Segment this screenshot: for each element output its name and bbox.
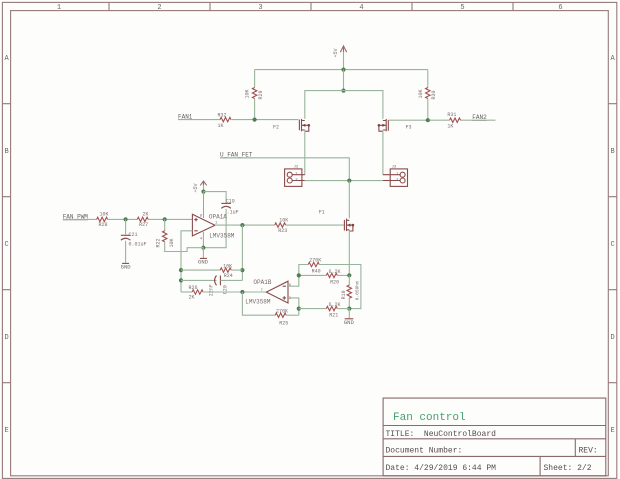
- svg-text:R24: R24: [224, 273, 233, 279]
- svg-text:R28: R28: [99, 222, 108, 228]
- svg-text:5: 5: [460, 4, 464, 12]
- svg-text:F1: F1: [319, 210, 325, 216]
- wire sense to GND: [348, 309, 350, 319]
- junction R24 right: [240, 268, 244, 272]
- svg-text:2K: 2K: [143, 212, 149, 218]
- svg-text:10K: 10K: [245, 89, 251, 98]
- resistor R24: [181, 264, 242, 280]
- junction R24 left: [179, 268, 183, 272]
- svg-text:GND: GND: [344, 319, 355, 326]
- svg-text:R29: R29: [258, 90, 264, 99]
- svg-text:TITLE: NeuControlBoard: TITLE: NeuControlBoard: [386, 430, 497, 439]
- svg-text:6.2K: 6.2K: [329, 302, 341, 308]
- op-amp V+ pin: [203, 192, 205, 218]
- wire F1 drain up: [348, 181, 350, 219]
- wire +5V to C19: [204, 192, 227, 204]
- frame row ticks left: [2, 104, 10, 383]
- wire +5V stem: [343, 52, 345, 69]
- wire FAN1: [178, 119, 220, 121]
- junction top rail: [341, 68, 345, 72]
- wire J2-J3 row: [305, 180, 383, 182]
- junction R29/FAN1: [253, 118, 257, 122]
- svg-text:R25: R25: [279, 321, 288, 327]
- wire R23 to F1 gate: [286, 224, 344, 226]
- svg-text:C20: C20: [223, 285, 229, 294]
- svg-text:4: 4: [359, 4, 363, 12]
- wire R20 to sense node: [337, 274, 349, 276]
- svg-text:R31: R31: [447, 112, 456, 118]
- svg-text:0.05Ohm: 0.05Ohm: [355, 281, 361, 300]
- svg-text:6: 6: [558, 4, 562, 12]
- wire U_FAN_FET: [221, 158, 350, 181]
- wire R40 to right leg: [319, 265, 361, 309]
- svg-text:3: 3: [258, 4, 262, 12]
- capacitor C20: [181, 276, 242, 297]
- wire R26 row: [181, 291, 192, 293]
- svg-text:Sheet: 2/2: Sheet: 2/2: [544, 464, 592, 473]
- svg-text:1K: 1K: [218, 123, 224, 129]
- resistor R31: [447, 112, 460, 130]
- svg-text:D: D: [610, 334, 614, 342]
- svg-text:R21: R21: [329, 313, 338, 319]
- wire -input to feedback bus: [181, 231, 192, 292]
- svg-text:R32: R32: [218, 112, 227, 118]
- svg-text:LMV358M: LMV358M: [209, 232, 235, 239]
- svg-text:E: E: [610, 427, 614, 435]
- wire top rail: [255, 69, 428, 71]
- resistor R32: [218, 112, 232, 129]
- junction R30/FAN2: [426, 118, 430, 122]
- wire FAN_PWM: [63, 218, 97, 220]
- junction R20 left: [297, 273, 301, 277]
- svg-text:270K: 270K: [309, 258, 321, 264]
- resistor R25: [275, 309, 288, 327]
- junction J row: [347, 179, 351, 183]
- resistor R19: [341, 275, 360, 308]
- svg-text:R27: R27: [139, 222, 148, 228]
- junction R22 tap: [163, 217, 167, 221]
- svg-text:GND: GND: [121, 263, 132, 270]
- svg-text:1: 1: [57, 4, 61, 12]
- wire R25 loop: [242, 292, 275, 315]
- svg-text:+5V: +5V: [333, 48, 339, 57]
- svg-text:10K: 10K: [100, 212, 109, 218]
- svg-text:+5V: +5V: [193, 183, 199, 192]
- svg-text:C19: C19: [226, 198, 235, 204]
- frame row ticks right: [608, 104, 617, 383]
- resistor R28: [97, 212, 109, 228]
- svg-text:LMV358M: LMV358M: [245, 298, 271, 305]
- wire R26 to OPA1B output: [203, 291, 266, 293]
- resistor R27: [137, 212, 148, 228]
- svg-text:Document Number:: Document Number:: [386, 446, 463, 455]
- wire V- to GND: [202, 248, 204, 258]
- wire R20 row: [299, 274, 327, 276]
- wire FAN2 right: [461, 119, 496, 121]
- frame row letters left: [4, 55, 9, 435]
- junction +5V node: [201, 190, 205, 194]
- ground GND (C21): [121, 263, 132, 270]
- svg-text:10K: 10K: [279, 218, 288, 224]
- ground GND (op-amp): [198, 258, 209, 265]
- resistor R26: [189, 285, 204, 301]
- svg-text:R19: R19: [341, 290, 347, 299]
- frame column numbers top: [57, 4, 563, 12]
- wire +5V to opamp V+: [203, 185, 205, 191]
- svg-text:R30: R30: [431, 90, 437, 99]
- resistor R21: [326, 302, 340, 319]
- connector J2: [285, 165, 305, 186]
- connector J3: [383, 165, 408, 186]
- wire C19 bottom to gnd row: [203, 209, 226, 248]
- svg-text:Fan control: Fan control: [393, 412, 466, 424]
- wire R21 to sense node: [337, 308, 349, 310]
- svg-text:OPA1B: OPA1B: [253, 279, 271, 286]
- svg-text:2K: 2K: [189, 295, 195, 301]
- wire pin5: [288, 298, 299, 315]
- svg-text:C: C: [4, 241, 8, 249]
- junction FET rail: [341, 89, 345, 93]
- svg-text:R23: R23: [278, 228, 287, 234]
- power +5V symbol (op-amp): [193, 181, 207, 192]
- transistor F2: [273, 119, 310, 131]
- transistor F3: [378, 119, 412, 131]
- junction output/feedback: [240, 223, 244, 227]
- title block outline: [383, 398, 606, 476]
- ground GND (sense): [344, 319, 355, 326]
- svg-text:REV:: REV:: [579, 446, 598, 455]
- junction C20 left: [179, 278, 183, 282]
- svg-text:R40: R40: [312, 268, 321, 274]
- resistor R29: [245, 70, 264, 120]
- junction sense top: [347, 273, 351, 277]
- svg-text:6.2K: 6.2K: [329, 269, 341, 275]
- svg-text:1K: 1K: [447, 124, 453, 130]
- wire R40 row: [299, 265, 308, 276]
- power +5V symbol (top): [333, 46, 347, 58]
- wire opamp output: [215, 224, 275, 226]
- capacitor C19: [221, 198, 238, 215]
- svg-text:D: D: [4, 334, 8, 342]
- junction R25 tap: [240, 290, 244, 294]
- svg-text:Date: 4/29/2019 6:44 PM: Date: 4/29/2019 6:44 PM: [386, 464, 497, 473]
- wire F1 source down: [348, 231, 350, 275]
- svg-text:2: 2: [157, 4, 161, 12]
- junction sense bottom: [347, 307, 351, 311]
- resistor R30: [418, 70, 437, 121]
- wire R25 to pin5 drop: [286, 314, 299, 316]
- wire R28 to R27: [108, 218, 138, 220]
- wire R27 to opamp +in: [148, 218, 192, 220]
- wire +5V drop to FET rail: [343, 70, 345, 91]
- svg-text:270K: 270K: [276, 309, 288, 315]
- frame row letters right: [610, 55, 615, 435]
- svg-text:10K: 10K: [223, 264, 232, 270]
- svg-text:OPA1A: OPA1A: [209, 214, 227, 221]
- svg-text:R26: R26: [189, 285, 198, 291]
- wire F3 source down: [382, 131, 384, 174]
- wire R30 junction to R31: [388, 119, 449, 121]
- frame column ticks top: [109, 2, 513, 10]
- wire FET source rail: [305, 91, 383, 119]
- svg-text:C: C: [610, 241, 614, 249]
- svg-text:C21: C21: [129, 232, 138, 238]
- svg-text:R20: R20: [330, 279, 339, 285]
- wire R32 to F2 gate: [232, 119, 299, 121]
- wire output feedback drop: [241, 225, 243, 280]
- junction pin5/R21: [297, 307, 301, 311]
- svg-text:22nF: 22nF: [208, 284, 214, 296]
- wire R21 row: [299, 308, 327, 310]
- svg-text:0.01uF: 0.01uF: [129, 242, 147, 248]
- wire F2 drain/source: [304, 131, 306, 174]
- svg-text:B: B: [610, 148, 614, 156]
- transistor F1: [319, 210, 355, 232]
- svg-text:E: E: [4, 427, 8, 435]
- svg-text:R22: R22: [156, 238, 162, 247]
- junction V- gnd row: [201, 246, 205, 250]
- svg-text:F2: F2: [273, 124, 279, 130]
- junction C21 tap: [124, 217, 128, 221]
- wire R22 bottom jog to gnd row: [165, 242, 204, 252]
- resistor R40: [308, 258, 321, 275]
- svg-text:.1uF: .1uF: [227, 209, 239, 215]
- svg-text:GND: GND: [198, 258, 209, 265]
- capacitor C21: [121, 219, 147, 262]
- svg-text:10K: 10K: [169, 238, 175, 247]
- resistor R23: [275, 218, 289, 235]
- wire pin6: [288, 275, 299, 286]
- svg-text:10K: 10K: [418, 89, 424, 98]
- svg-text:F3: F3: [406, 124, 412, 130]
- resistor R22: [156, 219, 176, 247]
- svg-text:B: B: [4, 148, 8, 156]
- op-amp V- pin: [202, 232, 204, 248]
- resistor R20: [326, 269, 340, 286]
